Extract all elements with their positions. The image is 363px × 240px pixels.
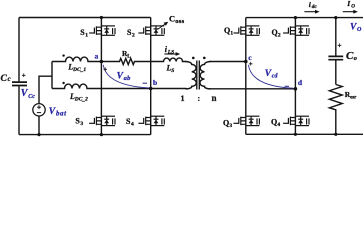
svg-text:V: V (265, 69, 272, 79)
svg-text:O: O (357, 27, 362, 33)
svg-text:b: b (153, 78, 157, 87)
svg-text:3: 3 (229, 123, 232, 129)
svg-text:C: C (1, 74, 8, 84)
svg-text:V: V (117, 72, 124, 82)
svg-text:+: + (22, 72, 26, 80)
svg-text::: : (198, 94, 201, 103)
svg-text:Q: Q (271, 118, 277, 127)
svg-text:Q: Q (223, 119, 229, 128)
svg-text:4: 4 (131, 122, 134, 128)
svg-text:bat: bat (56, 109, 67, 117)
svg-text:O: O (351, 3, 355, 9)
svg-text:ab: ab (124, 75, 132, 82)
svg-text:2: 2 (278, 33, 281, 39)
svg-text:oss: oss (175, 18, 184, 25)
svg-text:4: 4 (277, 122, 280, 128)
svg-text:dc: dc (312, 4, 318, 10)
svg-text:Cc: Cc (28, 94, 35, 100)
svg-text:V: V (350, 22, 357, 32)
svg-text:LS: LS (167, 49, 174, 55)
svg-text:+: + (338, 42, 342, 50)
svg-text:V: V (49, 107, 56, 117)
svg-text:o: o (354, 55, 358, 62)
svg-text:c: c (8, 75, 11, 83)
svg-text:1: 1 (230, 31, 233, 37)
svg-text:esr: esr (350, 95, 357, 100)
svg-text:1: 1 (85, 33, 88, 39)
svg-text:d: d (298, 78, 303, 87)
svg-text:cd: cd (272, 74, 279, 80)
svg-text:Q: Q (224, 26, 230, 35)
svg-text:S: S (171, 68, 174, 74)
svg-text:DC_2: DC_2 (74, 97, 88, 103)
svg-text:DC_1: DC_1 (72, 67, 86, 73)
svg-text:+: + (103, 66, 107, 74)
svg-text:a: a (95, 52, 99, 61)
svg-text:1: 1 (181, 94, 185, 103)
svg-text:n: n (212, 93, 217, 103)
svg-text:2: 2 (132, 33, 135, 39)
svg-text:3: 3 (80, 121, 83, 127)
svg-text:Q: Q (272, 28, 278, 37)
